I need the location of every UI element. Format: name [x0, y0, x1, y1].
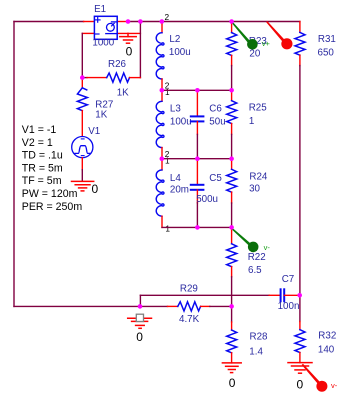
svg-text:1: 1: [249, 116, 254, 127]
junction dot C7 right: [297, 293, 302, 298]
ground at R32: [288, 363, 312, 374]
junction dot row3 R24: [229, 156, 234, 161]
svg-text:0: 0: [92, 182, 99, 196]
junction dot row3 C5: [195, 156, 200, 161]
svg-text:650: 650: [318, 47, 335, 58]
svg-text:0: 0: [126, 45, 133, 59]
svg-text:1.4: 1.4: [249, 346, 263, 357]
green probe on R23: [231, 21, 257, 49]
svg-text:2: 2: [165, 12, 170, 22]
svg-text:500u: 500u: [196, 194, 218, 205]
svg-text:R26: R26: [108, 59, 127, 70]
green probe on R22: [231, 228, 258, 252]
svg-text:R28: R28: [250, 331, 269, 342]
junction dot row4 C5 bottom: [195, 225, 200, 230]
svg-text:TF = 5m: TF = 5m: [22, 175, 62, 187]
wire row3: [162, 158, 232, 160]
capacitor C7: [269, 289, 300, 301]
svg-text:PER = 250m: PER = 250m: [22, 201, 83, 213]
svg-text:1000: 1000: [92, 37, 114, 48]
svg-text:100u: 100u: [170, 117, 192, 128]
wire E1 lower left pin: [82, 32, 94, 34]
svg-text:6.5: 6.5: [248, 265, 262, 276]
wire E1 feedback left vertical: [81, 33, 83, 77]
junction dot R26 R27: [80, 75, 85, 80]
wire R26 right vertical: [139, 22, 141, 78]
resistor R28: [227, 306, 237, 363]
junction dot bottom R28 top: [229, 304, 234, 309]
svg-text:C7: C7: [282, 274, 295, 285]
svg-text:v+: v+: [262, 39, 271, 48]
capacitor C5: [191, 159, 204, 228]
svg-text:0: 0: [297, 377, 304, 391]
capacitor C6: [191, 90, 204, 158]
ground at R28: [222, 363, 241, 373]
wire E1 right pin stub: [117, 21, 128, 23]
resistor R24: [227, 159, 237, 228]
wire V1 to ground: [81, 170, 83, 182]
svg-text:0: 0: [136, 330, 143, 344]
svg-text:20m: 20m: [170, 185, 189, 196]
ground with box at R29 node: [128, 314, 152, 328]
svg-text:TR = 5m: TR = 5m: [22, 162, 63, 174]
V1 parameter text block: [22, 124, 83, 213]
ground at V1: [72, 181, 94, 191]
svg-text:1: 1: [165, 224, 170, 234]
svg-text:R24: R24: [249, 172, 268, 183]
svg-text:C6: C6: [209, 104, 222, 115]
svg-text:1K: 1K: [95, 110, 107, 121]
svg-text:V1: V1: [88, 126, 100, 137]
inductor L3: [156, 90, 164, 158]
wire row1 right segment: [128, 21, 300, 23]
resistor R31: [295, 22, 305, 296]
svg-text:0: 0: [229, 376, 236, 390]
svg-text:V2 = 1: V2 = 1: [22, 137, 53, 149]
op-amp block E1 (VCVS): [94, 16, 117, 39]
resistor R27: [77, 78, 87, 137]
svg-text:1: 1: [165, 155, 170, 165]
svg-text:50u: 50u: [209, 117, 225, 128]
svg-text:TD = .1u: TD = .1u: [22, 150, 63, 162]
svg-text:R22: R22: [248, 252, 266, 263]
svg-text:PW = 120m: PW = 120m: [22, 188, 78, 200]
wire row4: [162, 226, 232, 228]
junction dot row2 L: [160, 88, 165, 93]
inductor L2: [156, 22, 164, 91]
junction dot bottom R29 left: [138, 304, 143, 309]
svg-text:140: 140: [318, 344, 335, 355]
wire row2: [162, 89, 232, 91]
svg-text:v-: v-: [331, 381, 338, 390]
resistor R26: [82, 73, 140, 82]
inductor L4: [156, 159, 164, 228]
svg-text:V1 = -1: V1 = -1: [22, 124, 57, 136]
svg-text:L4: L4: [170, 173, 181, 184]
junction dot row3 L: [160, 156, 165, 161]
svg-text:20: 20: [249, 49, 260, 60]
voltage source V1 (pulse): [72, 137, 93, 158]
svg-text:4.7K: 4.7K: [179, 314, 200, 325]
svg-text:R31: R31: [318, 34, 336, 45]
junction dot row4 R22 top: [229, 225, 234, 230]
svg-text:E1: E1: [94, 4, 106, 15]
svg-text:100n: 100n: [278, 301, 300, 312]
wire V1 bottom stub: [81, 158, 83, 170]
svg-text:1K: 1K: [117, 87, 129, 98]
junction dot row1 E1 out: [126, 19, 131, 24]
svg-text:R32: R32: [318, 331, 336, 342]
wire bottom left segment: [14, 305, 140, 307]
junction dot row1 R26 branch: [138, 19, 143, 24]
svg-text:R25: R25: [249, 103, 268, 114]
junction dot row2 R25: [229, 88, 234, 93]
svg-text:100u: 100u: [169, 47, 191, 58]
resistor R25: [227, 90, 237, 158]
wire E1 lower right pin: [117, 32, 140, 34]
junction dot row1 L2 top: [160, 19, 165, 24]
svg-text:1: 1: [165, 87, 170, 97]
wire row1 left segment: [14, 21, 84, 23]
resistor R23: [227, 22, 237, 91]
svg-text:L2: L2: [169, 34, 180, 45]
wire bypass vertical at R29 left: [139, 295, 141, 306]
wire E1 left pin stub: [84, 21, 95, 23]
svg-text:v-: v-: [264, 243, 271, 252]
svg-text:30: 30: [249, 184, 260, 195]
svg-text:R29: R29: [180, 283, 198, 294]
wire bypass horizontal to C7: [140, 294, 269, 296]
wire left border vertical: [13, 22, 15, 307]
red probe on R31: [266, 21, 292, 49]
junction dot row1 R23 top: [229, 19, 234, 24]
resistor R22: [227, 227, 237, 306]
svg-text:C5: C5: [209, 173, 222, 184]
ground at E1 output: [120, 33, 136, 43]
junction dot row2 C6: [195, 88, 200, 93]
resistor R29: [140, 302, 232, 311]
resistor R32: [295, 295, 305, 362]
red probe at R32 ground: [302, 364, 328, 392]
svg-text:L3: L3: [170, 104, 181, 115]
